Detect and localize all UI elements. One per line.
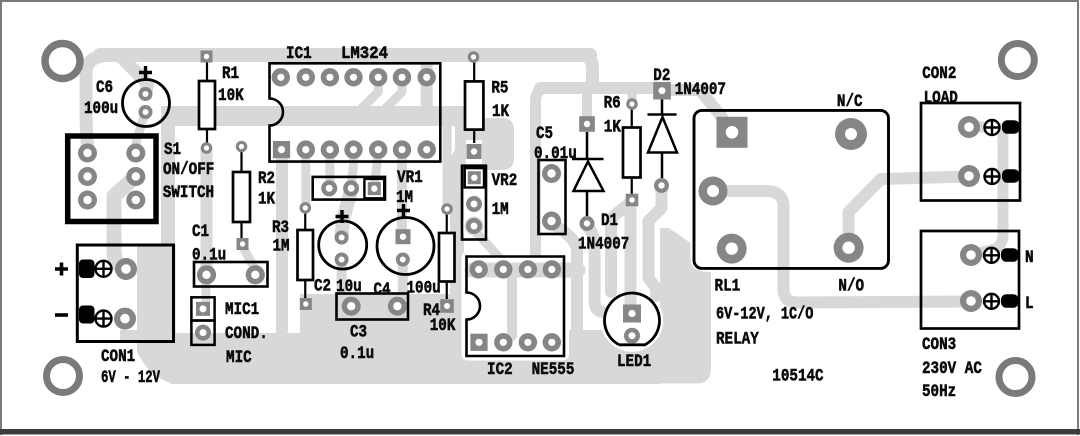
- svg-text:RELAY: RELAY: [716, 330, 759, 350]
- svg-text:N/O: N/O: [838, 277, 864, 297]
- svg-text:C1: C1: [192, 222, 209, 242]
- svg-text:CON2: CON2: [922, 64, 956, 84]
- svg-text:230V AC: 230V AC: [922, 359, 982, 379]
- svg-text:C2: C2: [314, 277, 331, 297]
- svg-text:1M: 1M: [492, 200, 509, 220]
- svg-text:VR1: VR1: [397, 168, 423, 188]
- svg-text:6V - 12V: 6V - 12V: [101, 368, 160, 388]
- svg-text:CON1: CON1: [101, 347, 135, 367]
- svg-text:0.01u: 0.01u: [534, 144, 577, 164]
- svg-text:MIC1: MIC1: [225, 300, 259, 320]
- svg-text:LOAD: LOAD: [924, 89, 958, 109]
- svg-text:1N4007: 1N4007: [675, 80, 726, 100]
- svg-text:1K: 1K: [258, 190, 275, 210]
- svg-text:D2: D2: [653, 66, 670, 86]
- svg-text:N/C: N/C: [837, 92, 863, 112]
- svg-text:VR2: VR2: [492, 171, 518, 191]
- svg-text:1K: 1K: [492, 102, 509, 122]
- svg-text:10K: 10K: [430, 316, 456, 336]
- svg-text:C3: C3: [350, 323, 367, 343]
- svg-text:D1: D1: [601, 211, 618, 231]
- svg-text:COND.: COND.: [225, 324, 268, 344]
- svg-text:10K: 10K: [218, 86, 244, 106]
- svg-text:C6: C6: [96, 78, 113, 98]
- svg-text:RL1: RL1: [715, 277, 741, 297]
- svg-text:S1: S1: [164, 140, 181, 160]
- svg-text:0.1u: 0.1u: [340, 344, 374, 364]
- svg-text:N: N: [1025, 248, 1034, 268]
- svg-text:1N4007: 1N4007: [578, 235, 629, 255]
- svg-text:MIC: MIC: [226, 348, 252, 368]
- svg-text:LM324: LM324: [341, 44, 388, 64]
- svg-text:50Hz: 50Hz: [922, 382, 956, 402]
- svg-text:LED1: LED1: [617, 352, 651, 372]
- svg-text:SWITCH: SWITCH: [163, 183, 214, 203]
- svg-text:L: L: [1025, 294, 1034, 314]
- svg-text:1M: 1M: [396, 188, 413, 208]
- svg-text:R2: R2: [258, 169, 275, 189]
- svg-text:1K: 1K: [604, 118, 621, 138]
- svg-text:CON3: CON3: [922, 335, 956, 355]
- svg-text:10514C: 10514C: [772, 366, 824, 386]
- svg-text:R5: R5: [491, 79, 508, 99]
- svg-text:C4: C4: [374, 280, 391, 300]
- svg-text:R3: R3: [272, 218, 289, 238]
- svg-text:10u: 10u: [336, 277, 362, 297]
- svg-text:6V-12V, 1C/O: 6V-12V, 1C/O: [716, 304, 813, 324]
- svg-text:ON/OFF: ON/OFF: [163, 160, 214, 180]
- svg-text:IC2: IC2: [487, 360, 513, 380]
- svg-text:1M: 1M: [273, 237, 290, 257]
- svg-text:NE555: NE555: [532, 360, 575, 380]
- svg-text:100u: 100u: [84, 99, 118, 119]
- svg-text:IC1: IC1: [286, 44, 312, 64]
- svg-text:100u: 100u: [407, 279, 441, 299]
- svg-text:0.1u: 0.1u: [192, 246, 226, 266]
- svg-text:R6: R6: [604, 94, 621, 114]
- svg-text:C5: C5: [536, 124, 553, 144]
- svg-text:R1: R1: [222, 64, 239, 84]
